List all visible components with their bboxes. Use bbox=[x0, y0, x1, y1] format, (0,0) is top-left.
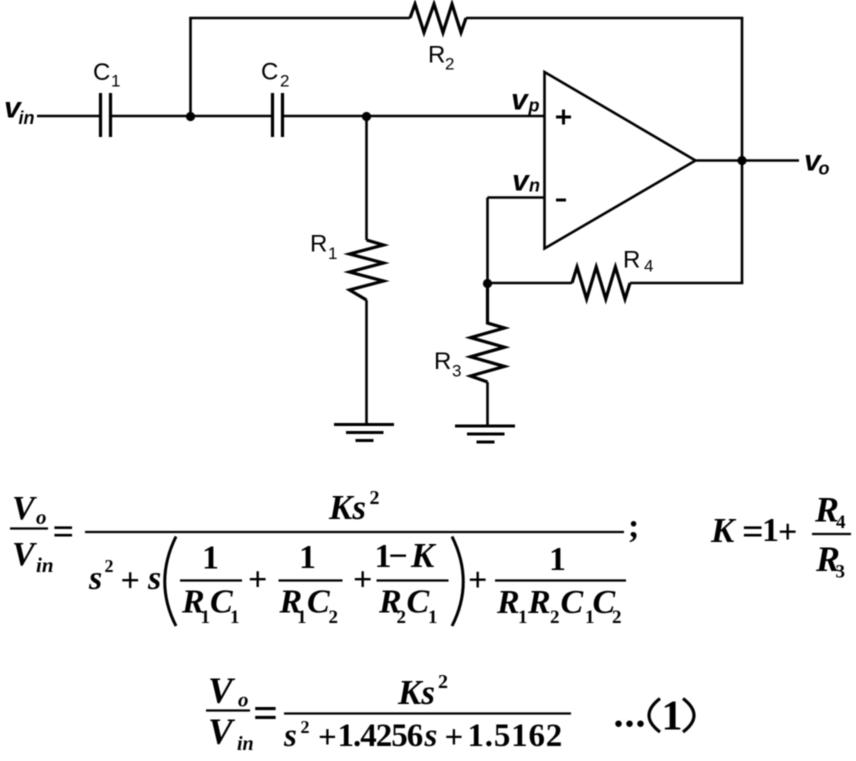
svg-text:−: − bbox=[389, 538, 408, 575]
node junction at R1 top bbox=[362, 112, 371, 121]
svg-text:1: 1 bbox=[297, 607, 307, 628]
equation 1 bbox=[10, 487, 639, 628]
svg-text:=: = bbox=[742, 511, 764, 553]
wire R3 to ground bbox=[486, 382, 489, 426]
svg-text:R: R bbox=[623, 247, 640, 274]
svg-text:C: C bbox=[307, 584, 330, 621]
svg-text:s: s bbox=[147, 560, 161, 597]
svg-text:4: 4 bbox=[836, 512, 846, 533]
wire junction to R4 bbox=[488, 282, 573, 285]
svg-text:V: V bbox=[208, 671, 236, 712]
svg-text:1: 1 bbox=[111, 72, 120, 91]
svg-text:o: o bbox=[36, 505, 47, 529]
wire R1 to ground bbox=[365, 300, 368, 424]
wire R4 to output rail bbox=[630, 282, 743, 285]
resistor R1 bbox=[350, 240, 384, 300]
svg-text:1: 1 bbox=[230, 607, 240, 628]
svg-text:+: + bbox=[778, 514, 797, 551]
equation K = 1 + R4/R3 bbox=[710, 490, 851, 583]
node output junction bbox=[737, 156, 746, 165]
svg-text:R: R bbox=[527, 584, 551, 621]
svg-text:2: 2 bbox=[329, 607, 339, 628]
svg-text:in: in bbox=[237, 733, 254, 755]
svg-text:K: K bbox=[410, 536, 437, 575]
svg-text:2: 2 bbox=[370, 487, 380, 509]
svg-text:s: s bbox=[88, 560, 102, 597]
svg-text:s: s bbox=[283, 718, 297, 754]
svg-text:+: + bbox=[468, 562, 487, 599]
(1-K)/(R2C1) bbox=[377, 579, 449, 581]
svg-text:1: 1 bbox=[201, 607, 211, 628]
svg-text:1.4256: 1.4256 bbox=[338, 718, 423, 754]
svg-text:R: R bbox=[428, 42, 445, 69]
svg-text:1: 1 bbox=[328, 244, 337, 263]
svg-text:p: p bbox=[528, 96, 540, 116]
svg-text:1.5162: 1.5162 bbox=[468, 718, 564, 754]
svg-text:+: + bbox=[318, 720, 337, 756]
svg-text:v: v bbox=[511, 84, 530, 117]
svg-text:;: ; bbox=[628, 508, 639, 545]
svg-text:C: C bbox=[261, 59, 278, 86]
svg-text:=: = bbox=[53, 511, 75, 553]
svg-text:2: 2 bbox=[105, 556, 114, 576]
ground (below R1) bbox=[334, 425, 394, 441]
wire C2 to op-amp plus input bbox=[284, 115, 545, 118]
svg-text:+: + bbox=[353, 562, 372, 599]
svg-text:1: 1 bbox=[518, 607, 528, 628]
svg-text:1: 1 bbox=[762, 512, 779, 549]
svg-text:n: n bbox=[529, 176, 540, 196]
equation 2 bbox=[206, 671, 571, 756]
wire top rail left bbox=[189, 17, 410, 20]
equation number (1) bbox=[614, 691, 695, 740]
svg-text:3: 3 bbox=[452, 362, 461, 381]
svg-text:...: ... bbox=[614, 691, 647, 736]
svg-text:V: V bbox=[208, 712, 236, 753]
svg-text:K: K bbox=[710, 511, 737, 550]
svg-text:V: V bbox=[12, 490, 37, 527]
svg-text:1: 1 bbox=[662, 694, 683, 740]
op-amp U1 bbox=[545, 72, 696, 249]
svg-text:s: s bbox=[424, 718, 438, 754]
node junction R3 R4 bbox=[483, 279, 492, 288]
svg-text:4: 4 bbox=[644, 257, 653, 276]
svg-text:1: 1 bbox=[202, 540, 219, 577]
svg-text:V: V bbox=[12, 536, 37, 573]
svg-text:1: 1 bbox=[428, 607, 438, 628]
svg-text:+: + bbox=[445, 720, 464, 756]
svg-text:Ks: Ks bbox=[328, 488, 366, 527]
node label v_n bbox=[512, 165, 540, 198]
svg-text:2: 2 bbox=[280, 72, 289, 91]
svg-text:+: + bbox=[121, 563, 140, 600]
main fraction bar bbox=[85, 531, 624, 533]
svg-text:in: in bbox=[19, 108, 35, 128]
wire C1 to C2 bbox=[112, 115, 271, 118]
svg-text:o: o bbox=[238, 688, 249, 712]
svg-text:1: 1 bbox=[299, 539, 316, 576]
resistor R2 bbox=[410, 4, 466, 33]
wire op-amp output bbox=[696, 159, 800, 162]
svg-text:3: 3 bbox=[836, 562, 846, 583]
svg-text:R: R bbox=[496, 584, 520, 621]
capacitor C1 bbox=[101, 93, 111, 137]
wire right vertical rail bbox=[741, 18, 744, 283]
svg-text:2: 2 bbox=[550, 607, 560, 628]
svg-text:R: R bbox=[434, 348, 451, 375]
wire vin to C1 bbox=[37, 115, 99, 118]
capacitor C2 bbox=[273, 93, 283, 137]
svg-text:C: C bbox=[407, 584, 430, 621]
resistor R4 bbox=[572, 267, 630, 299]
svg-text:1: 1 bbox=[549, 541, 566, 578]
1/(R1C2) bbox=[279, 579, 343, 581]
1/(R1C1) bbox=[180, 579, 242, 581]
svg-text:=: = bbox=[253, 689, 278, 738]
node label v_p bbox=[511, 84, 540, 117]
svg-text:in: in bbox=[36, 553, 54, 577]
svg-text:C: C bbox=[561, 584, 584, 621]
wire top rail right bbox=[466, 17, 743, 20]
1/(R1R2C1C2) bbox=[495, 579, 626, 581]
node junction after C1 bbox=[186, 112, 195, 121]
wire junction down to R1 bbox=[365, 116, 368, 240]
svg-text:2: 2 bbox=[445, 55, 454, 74]
svg-text:R: R bbox=[310, 231, 327, 258]
node label v_o bbox=[804, 145, 830, 179]
svg-text:+: + bbox=[248, 562, 267, 599]
ground (below R3) bbox=[455, 426, 515, 442]
svg-text:2: 2 bbox=[612, 607, 622, 628]
resistor R3 bbox=[471, 283, 505, 382]
node label v_in bbox=[4, 92, 35, 129]
svg-text:2: 2 bbox=[438, 671, 448, 693]
wire up from junction bbox=[189, 18, 192, 116]
svg-text:2: 2 bbox=[301, 717, 310, 737]
svg-text:o: o bbox=[819, 159, 830, 179]
wire op-amp minus input bbox=[488, 196, 545, 199]
svg-text:2: 2 bbox=[397, 607, 407, 628]
svg-text:Ks: Ks bbox=[397, 673, 435, 712]
svg-text:C: C bbox=[93, 59, 110, 86]
